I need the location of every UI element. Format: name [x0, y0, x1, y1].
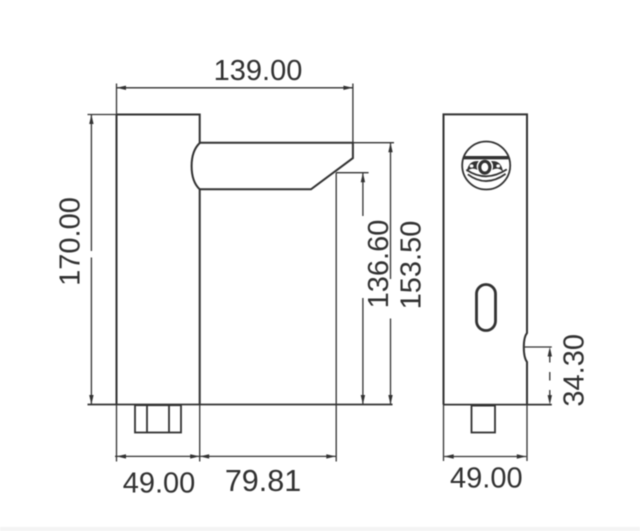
faucet body outline (side view)	[117, 115, 200, 405]
arrow 139 right	[343, 86, 353, 90]
arrow 34.30 bottom	[548, 395, 552, 405]
bottom gray strip	[0, 527, 640, 531]
arrow 34.30 top	[548, 347, 552, 357]
arrow 49 left	[117, 454, 127, 458]
dimension 153.50 line	[353, 143, 394, 405]
arrow 170 bottom	[89, 395, 93, 405]
svg-text:170.00: 170.00	[55, 197, 87, 286]
arrow front 49 left	[444, 454, 454, 458]
dimension 170.00 line	[88, 115, 117, 405]
sensor eye lower arc 2	[468, 174, 506, 181]
nut inner line right	[168, 405, 170, 432]
sensor eye right wing	[491, 161, 503, 172]
arrow 79 right	[326, 454, 336, 458]
body left edge (side view)	[116, 115, 118, 405]
svg-text:153.50: 153.50	[396, 221, 428, 310]
oval slot	[477, 285, 496, 331]
dimension front 49.00	[444, 456, 526, 458]
dimension 139.00 line	[117, 84, 353, 143]
sensor eye band	[464, 156, 508, 159]
svg-text:34.30: 34.30	[559, 334, 591, 407]
sensor eye left wing highlight	[470, 164, 474, 167]
sensor eye left wing	[467, 161, 479, 172]
base line with extensions	[88, 404, 393, 406]
spout outline (side view)	[200, 143, 353, 190]
arrow 136.60 bottom	[361, 395, 365, 405]
front view inlet square	[472, 406, 496, 433]
front view side extension left	[443, 405, 445, 461]
sensor eye lower arc 1	[466, 169, 507, 176]
svg-text:139.00: 139.00	[214, 55, 303, 87]
dimension 49.00 / 79.81 line	[115, 173, 336, 462]
front view body outline	[444, 114, 528, 404]
sensor eye outer circle	[462, 142, 510, 190]
dimension 136.60 line	[336, 173, 368, 405]
dimension 34.30	[524, 347, 552, 405]
svg-text:136.60: 136.60	[363, 220, 395, 309]
inlet nut (side view)	[135, 405, 181, 432]
front view bottom line	[443, 404, 552, 406]
arrow 136.60 top	[361, 173, 365, 183]
sensor eye right wing highlight	[496, 164, 500, 167]
sensor eye pupil	[480, 161, 490, 173]
nut inner line left	[146, 405, 148, 432]
arrow 49/79 middle right	[200, 454, 210, 458]
svg-text:79.81: 79.81	[225, 464, 301, 498]
arrow 49/79 middle left	[190, 454, 200, 458]
arrow 139 left	[117, 86, 127, 90]
arrow 153.50 bottom	[388, 395, 392, 405]
arrow 170 top	[89, 115, 93, 125]
arrow front 49 right	[517, 454, 527, 458]
svg-text:49.00: 49.00	[450, 463, 523, 495]
front view side extension right	[526, 405, 528, 461]
svg-text:49.00: 49.00	[123, 468, 196, 500]
arrow 153.50 top	[388, 143, 392, 153]
